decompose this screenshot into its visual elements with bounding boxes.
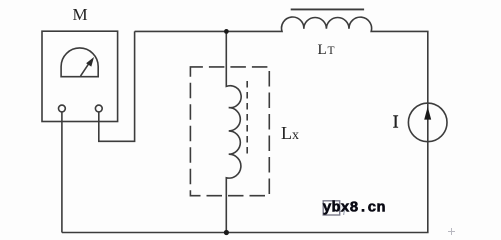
- svg-text:I: I: [393, 112, 399, 132]
- svg-text:L: L: [318, 42, 327, 58]
- svg-text:M: M: [73, 5, 88, 24]
- svg-text:ybx8.cn: ybx8.cn: [323, 199, 386, 216]
- svg-text:x: x: [292, 128, 299, 143]
- svg-text:T: T: [328, 45, 335, 57]
- svg-text:L: L: [281, 123, 292, 143]
